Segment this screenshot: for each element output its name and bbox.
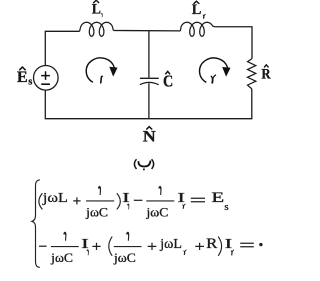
eq1 left paren: [39, 193, 43, 209]
mesh current 1 arc: [86, 58, 114, 82]
mesh current 2 label (Persian 2): [211, 75, 216, 79]
eq2 left paren: [109, 237, 112, 256]
wire: L1 to middle node to L2: [113, 30, 180, 32]
svg-text:I: I: [225, 237, 233, 252]
mesh current 2 arc: [200, 58, 228, 82]
svg-text:jωL: jωL: [42, 191, 68, 206]
eq2 equals: [240, 243, 254, 247]
eq1 fraction 2 bar: [146, 200, 174, 202]
plus sign inside source: [41, 71, 50, 80]
wire: L2 to top-right corner down to resistor: [215, 27, 252, 59]
svg-text:E: E: [211, 190, 224, 206]
mesh current 1 label (Persian 1): [101, 76, 102, 83]
svg-text:E: E: [17, 69, 28, 86]
eq2 frac2 numerator Persian 1: [126, 232, 129, 241]
eq1 equals: [191, 198, 205, 202]
caption (b) Persian beh in parens: [134, 159, 136, 169]
inductor L1 coil: [80, 22, 114, 36]
svg-text:C: C: [163, 71, 173, 90]
svg-text:s: s: [224, 201, 228, 213]
eq2 plus 3: [195, 243, 204, 250]
eq1 minus: [134, 199, 143, 201]
voltage source Es circle: [34, 66, 59, 91]
wire: middle branch top to capacitor: [148, 31, 150, 78]
svg-text:R: R: [261, 66, 271, 82]
svg-text:jωL: jωL: [159, 237, 182, 252]
eq2 fraction 2 bar: [114, 246, 142, 248]
svg-text:jωC: jωC: [113, 251, 136, 265]
svg-text:jωC: jωC: [145, 205, 168, 219]
eq1 frac2 numerator Persian 1: [158, 186, 161, 195]
svg-text:R: R: [206, 236, 218, 252]
wire: resistor to bottom-right corner: [45, 89, 252, 119]
system brace: [32, 180, 40, 268]
svg-text:jωC: jωC: [85, 205, 108, 219]
wire: left and top-left wire from source to L1: [45, 31, 79, 65]
eq2 fraction 1 bar: [51, 246, 79, 248]
svg-text:L: L: [192, 2, 202, 18]
svg-text:I: I: [122, 191, 130, 206]
inductor L2 coil: [180, 22, 215, 36]
mesh current 1 arrowhead: [109, 67, 117, 77]
eq1 plus: [73, 197, 80, 204]
capacitor C bottom curved plate: [140, 82, 159, 84]
eq2 frac1 numerator Persian 1: [63, 232, 66, 241]
svg-text:jωC: jωC: [50, 251, 73, 265]
eq2 rhs Persian zero dot: [259, 243, 262, 246]
minus sign inside source: [41, 83, 50, 85]
eq1 right paren: [117, 193, 121, 209]
capacitor C top plate: [140, 77, 159, 79]
resistor R zigzag: [248, 59, 256, 89]
svg-text:s: s: [28, 77, 32, 88]
eq2 leading minus: [39, 245, 47, 247]
eq2 plus 2: [148, 243, 157, 250]
eq1 frac1 numerator Persian 1: [98, 186, 101, 195]
svg-text:L: L: [92, 1, 102, 17]
eq2 plus 1: [92, 243, 100, 250]
eq1 fraction 1/jwC bar: [86, 200, 114, 202]
wire: capacitor to bottom wire: [148, 83, 150, 119]
svg-text:I: I: [177, 191, 185, 206]
eq2 right paren: [218, 237, 221, 256]
svg-text:N: N: [143, 129, 156, 146]
mesh current 2 arrowhead: [222, 67, 230, 77]
